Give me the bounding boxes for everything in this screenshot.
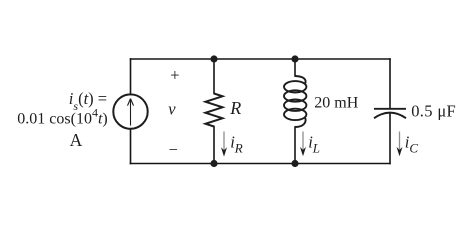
node bottom-left junction dot [210, 160, 217, 167]
svg-text:v: v [168, 100, 176, 119]
wire inductor bottom lead [294, 127, 296, 164]
wire left lower lead [130, 129, 132, 164]
wire bottom [131, 163, 391, 165]
current source arrow [128, 99, 134, 126]
wire capacitor bottom lead [389, 113, 391, 163]
svg-text:−: − [169, 140, 178, 159]
arrow iR [221, 132, 227, 157]
node bottom-right junction dot [291, 160, 298, 167]
wire resistor bottom lead [213, 127, 215, 164]
svg-text:20 mH: 20 mH [314, 94, 358, 111]
current source IS circle [113, 94, 147, 128]
wire resistor top lead [213, 59, 215, 94]
svg-text:+: + [170, 65, 179, 84]
svg-text:A: A [70, 130, 83, 150]
inductor L coil [284, 76, 306, 127]
resistor R zigzag [206, 94, 223, 127]
arrow iC [397, 132, 403, 157]
arrow iL [300, 132, 306, 157]
node top-right junction dot [291, 55, 298, 62]
wire capacitor top lead [389, 59, 391, 109]
node top-left junction dot [210, 55, 217, 62]
svg-text:0.5 μF: 0.5 μF [411, 102, 456, 121]
capacitor C plates [374, 109, 406, 118]
wire top [131, 58, 391, 60]
svg-text:R: R [229, 98, 241, 118]
wire left upper lead [130, 59, 132, 95]
wire inductor top lead [294, 59, 296, 76]
